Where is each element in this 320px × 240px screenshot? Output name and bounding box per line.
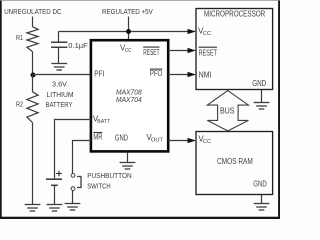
- BUS double arrow: [207, 91, 248, 131]
- wire top rail (capacitor to +5V node to microprocessor VCC): [59, 31, 190, 33]
- svg-text:0.1µF: 0.1µF: [68, 41, 88, 50]
- wire battery + up and right to VBATT: [55, 120, 91, 179]
- svg-text:3.6V: 3.6V: [52, 80, 67, 89]
- svg-text:RESET: RESET: [199, 49, 218, 58]
- svg-text:GND: GND: [252, 79, 266, 88]
- svg-text:BATT: BATT: [97, 119, 111, 125]
- wire VOUT to CMOS RAM VCC: [168, 140, 189, 142]
- microprocessor box: [196, 9, 273, 90]
- ground (microprocessor): [254, 103, 270, 110]
- svg-text:RESET: RESET: [143, 48, 159, 57]
- svg-text:BATTERY: BATTERY: [46, 100, 73, 109]
- svg-text:PUSHBUTTON: PUSHBUTTON: [87, 171, 132, 180]
- svg-text:UNREGULATED DC: UNREGULATED DC: [4, 7, 61, 16]
- ground (battery): [47, 205, 63, 212]
- resistor R1: [27, 27, 38, 52]
- svg-text:BUS: BUS: [220, 107, 235, 116]
- ground (chip GND): [120, 163, 136, 170]
- wire node to R2: [32, 75, 34, 92]
- svg-text:OUT: OUT: [151, 137, 164, 143]
- arrow into microprocessor VCC: [188, 29, 197, 34]
- svg-text:MR: MR: [93, 132, 102, 141]
- battery BT1 3.6V lithium plates: [46, 179, 62, 185]
- wire RESET to microprocessor: [168, 50, 189, 52]
- wire battery - to ground: [54, 185, 56, 204]
- IC U1 MAX708/MAX704 supervisor body: [91, 40, 168, 151]
- node junction +5V rail / VCC: [126, 29, 131, 34]
- svg-text:REGULATED +5V: REGULATED +5V: [102, 7, 153, 16]
- svg-text:R1: R1: [16, 33, 23, 42]
- ground (left rail): [25, 205, 41, 212]
- wire microprocessor GND down: [261, 90, 263, 103]
- resistor R2: [27, 92, 38, 123]
- svg-text:PFI: PFI: [94, 70, 104, 79]
- svg-text:GND: GND: [115, 134, 128, 143]
- svg-text:NMI: NMI: [199, 70, 212, 79]
- ground (capacitor): [51, 64, 67, 71]
- svg-text:MAX704: MAX704: [116, 95, 142, 104]
- wire unregulated dc down to R1: [32, 17, 34, 27]
- wire PFO to NMI: [168, 74, 189, 76]
- CMOS RAM box: [196, 132, 273, 195]
- svg-text:PFO: PFO: [150, 69, 163, 78]
- wire R2 to ground: [32, 123, 34, 205]
- pushbutton switch S1: [71, 174, 81, 191]
- wire MR pin left and down to switch: [73, 141, 91, 174]
- border frame: [0, 0, 280, 219]
- svg-text:GND: GND: [253, 179, 267, 188]
- svg-text:CC: CC: [125, 48, 132, 54]
- svg-text:CMOS RAM: CMOS RAM: [217, 157, 253, 166]
- svg-text:MICROPROCESSOR: MICROPROCESSOR: [204, 10, 266, 19]
- wire REGULATED +5V down to VCC pin: [128, 17, 130, 41]
- wire capacitor to ground: [58, 47, 60, 63]
- wire CMOS RAM GND down: [261, 195, 263, 204]
- wire R1 to node: [32, 52, 34, 75]
- wire switch to ground: [72, 191, 74, 204]
- wire capacitor top: [58, 32, 60, 43]
- capacitor C1 0.1uF: [51, 42, 67, 47]
- battery + sign: [56, 171, 62, 177]
- svg-text:LITHIUM: LITHIUM: [47, 90, 74, 99]
- svg-text:R2: R2: [16, 99, 23, 108]
- svg-text:SWITCH: SWITCH: [87, 182, 111, 191]
- node junction R1/R2/PFI: [31, 73, 36, 78]
- ground (CMOS RAM): [254, 204, 270, 211]
- svg-text:CC: CC: [203, 139, 211, 145]
- wire node to PFI pin: [33, 74, 91, 76]
- svg-text:CC: CC: [203, 31, 212, 37]
- ground (switch): [65, 204, 81, 211]
- wire chip GND down: [127, 151, 129, 162]
